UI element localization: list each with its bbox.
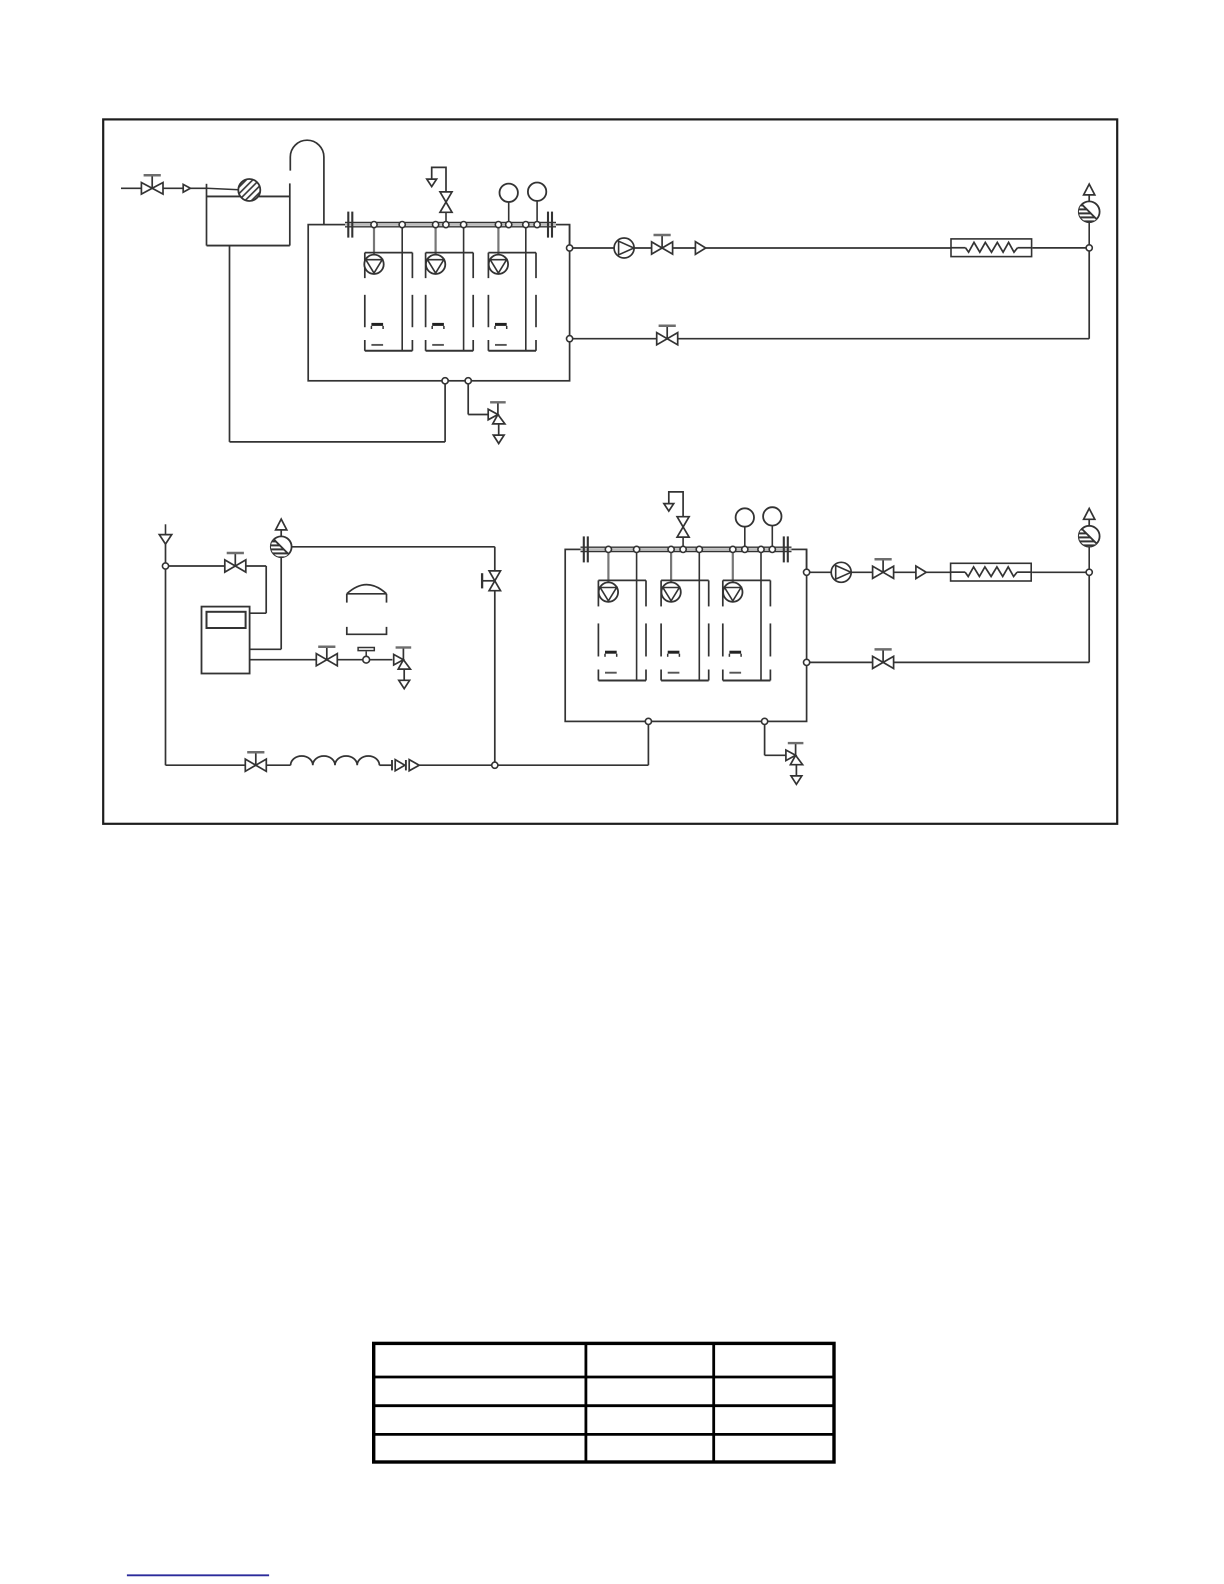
flange right upper — [548, 212, 552, 238]
wire return run upper — [678, 248, 1089, 339]
wire makeup vertical lower-left — [165, 524, 167, 765]
pump system lower — [831, 562, 851, 582]
drain valve lower — [786, 743, 804, 784]
valve return gate upper — [657, 326, 678, 345]
wire tank drain down-left-up to enclosure — [230, 246, 446, 442]
gauge P2 upper — [528, 183, 546, 225]
air vent lower-right — [1079, 509, 1100, 573]
wire feed line to fill tank — [121, 187, 207, 189]
check valve supply upper — [673, 242, 706, 255]
wire return run lower — [894, 572, 1089, 662]
vent pipe inverted U — [290, 140, 324, 224]
fill tank — [207, 183, 290, 245]
air vent lower-left — [271, 519, 292, 557]
boiler system enclosure lower — [565, 549, 806, 721]
node supply right upper — [1086, 245, 1092, 251]
node drain left lower — [645, 718, 651, 724]
wire vent to device — [250, 557, 282, 649]
wire return takeoff upper — [570, 338, 668, 340]
drain valve device — [394, 648, 412, 689]
boiler B6 lower — [723, 551, 771, 680]
node return left upper — [567, 336, 573, 342]
node drain right upper — [465, 378, 471, 384]
wire supply to node upper — [1033, 247, 1090, 249]
boiler system enclosure upper — [308, 225, 569, 381]
coil heat trap — [291, 756, 380, 765]
wire footer hyperlink rule — [127, 1574, 269, 1576]
wire makeup to boiler device — [168, 566, 266, 613]
node junctions manifold upper — [371, 222, 540, 228]
arrow makeup inlet — [159, 535, 171, 545]
check valve pair — [392, 760, 419, 771]
wire supply takeoff lower — [807, 549, 832, 572]
wire supply run lower — [926, 571, 950, 573]
diagram border frame — [103, 119, 1117, 823]
wire supply run upper — [706, 247, 951, 249]
flange left lower — [584, 536, 588, 562]
flange left upper — [348, 212, 352, 238]
cock purge — [358, 648, 374, 664]
wire device drain line — [250, 659, 393, 661]
drain valve upper — [488, 402, 506, 443]
boiler B1 upper — [364, 227, 412, 351]
float valve ball — [207, 179, 261, 201]
node supply left upper — [567, 245, 573, 251]
wire drain branch lower — [765, 724, 788, 755]
node makeup junction — [162, 563, 168, 569]
relief valve lower — [664, 492, 689, 550]
valve makeup gate — [225, 553, 246, 572]
node supply left lower — [804, 569, 810, 575]
node drain right lower — [762, 718, 768, 724]
air vent upper — [1079, 184, 1100, 248]
node junctions manifold lower — [605, 546, 775, 552]
wire supply to node lower — [1032, 571, 1089, 573]
wire return takeoff lower — [807, 661, 884, 663]
heat exchanger lower — [951, 563, 1032, 581]
manifold pipe upper — [345, 222, 556, 226]
valve supply gate lower — [851, 559, 893, 578]
wire supply takeoff upper — [570, 225, 615, 248]
valve feed gate valve — [141, 175, 163, 194]
boiler B5 lower — [661, 551, 709, 680]
node drain left upper — [442, 378, 448, 384]
wire vent to bypass — [292, 547, 495, 765]
boiler B3 upper — [488, 227, 536, 351]
gauge P1 upper — [500, 184, 518, 225]
wire drain branch upper — [468, 384, 488, 415]
boiler B2 upper — [426, 227, 474, 351]
wire bottom return line lower — [166, 764, 649, 766]
manifold pipe lower — [581, 547, 792, 551]
valve return gate lower — [873, 649, 894, 668]
relief valve upper — [427, 167, 452, 224]
node bypass bottom — [492, 762, 498, 768]
check valve feed small — [183, 184, 190, 192]
valve device gate — [316, 647, 337, 666]
expansion tank dome — [347, 585, 387, 635]
valve supply gate upper — [634, 235, 673, 254]
wire riser to enclosure lower — [647, 721, 649, 765]
node supply right lower — [1086, 569, 1092, 575]
valve bypass balancing — [482, 571, 500, 591]
flange right lower — [784, 536, 788, 562]
control device box — [202, 607, 250, 674]
boiler B4 lower — [598, 551, 646, 680]
valve bottom gate lower — [245, 752, 266, 771]
heat exchanger upper — [951, 239, 1032, 257]
gauge P4 lower — [763, 507, 781, 549]
node return left lower — [804, 659, 810, 665]
check valve supply lower — [894, 566, 927, 579]
gauge P3 lower — [736, 508, 754, 549]
pump system upper — [614, 238, 634, 258]
